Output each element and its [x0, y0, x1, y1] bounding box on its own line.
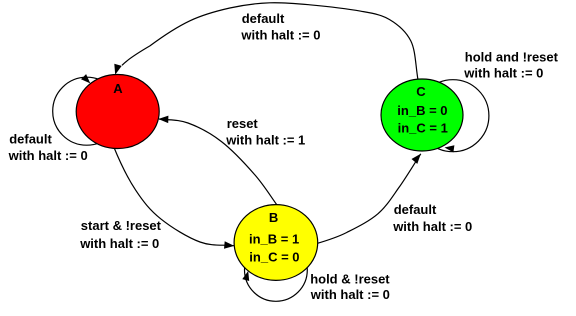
state C: [381, 79, 463, 151]
svg-text:in_C = 0: in_C = 0: [249, 250, 299, 265]
svg-text:start & !reset: start & !reset: [81, 218, 162, 233]
self-loop on state C: [417, 80, 489, 152]
arrowhead of B self-loop: [242, 271, 249, 281]
state A: [76, 75, 159, 149]
svg-text:hold & !reset: hold & !reset: [310, 271, 390, 286]
self-loop on state A: [53, 77, 121, 145]
svg-text:B: B: [269, 210, 278, 225]
svg-text:C: C: [416, 84, 426, 99]
svg-text:with halt := 0: with halt := 0: [392, 219, 472, 234]
svg-text:with halt := 0: with halt := 0: [240, 28, 320, 43]
svg-text:with halt := 0: with halt := 0: [463, 65, 543, 80]
transition B to A (reset): [159, 119, 278, 206]
svg-text:in_B = 0: in_B = 0: [397, 103, 447, 118]
svg-text:in_B = 1: in_B = 1: [249, 232, 299, 247]
svg-text:with halt := 0: with halt := 0: [310, 287, 390, 302]
svg-text:default: default: [394, 202, 437, 217]
arrowhead into C from B: [412, 154, 421, 164]
svg-text:reset: reset: [227, 116, 259, 131]
transition B to C (default): [315, 154, 421, 244]
svg-text:with halt := 0: with halt := 0: [8, 148, 88, 163]
svg-text:hold and !reset: hold and !reset: [465, 49, 559, 64]
transition C to A (default): [122, 3, 418, 80]
transition A to B (start): [114, 147, 235, 246]
svg-text:A: A: [113, 81, 123, 96]
self-loop on state B: [245, 239, 308, 302]
svg-text:default: default: [242, 11, 285, 26]
arrowhead into B from A: [224, 241, 234, 249]
svg-text:with halt := 1: with halt := 1: [225, 132, 305, 147]
svg-text:with halt := 0: with halt := 0: [79, 236, 159, 251]
arrowhead into A from B: [158, 116, 168, 124]
arrowhead into A from C: [114, 64, 121, 75]
arrowhead of C self-loop: [445, 145, 455, 152]
svg-text:default: default: [9, 132, 52, 147]
state B: [234, 205, 318, 281]
arrowhead of A self-loop: [81, 74, 90, 83]
svg-text:in_C = 1: in_C = 1: [398, 121, 448, 136]
